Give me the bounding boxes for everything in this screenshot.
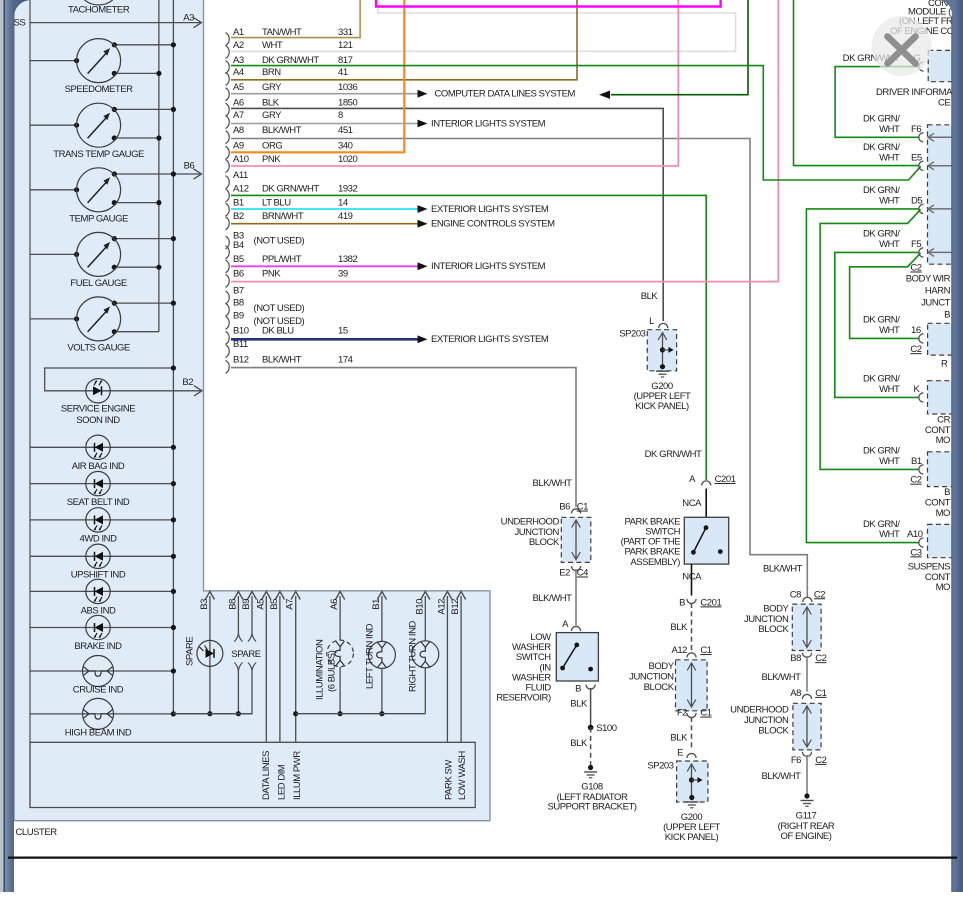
svg-text:331: 331 xyxy=(338,27,353,38)
underhood junction block right xyxy=(793,703,821,750)
svg-text:B9: B9 xyxy=(241,599,252,610)
svg-text:ILLUMINATION: ILLUMINATION xyxy=(315,639,326,700)
svg-text:SPARE: SPARE xyxy=(231,649,260,660)
svg-text:B10: B10 xyxy=(414,599,425,615)
svg-text:RIGHT TURN IND: RIGHT TURN IND xyxy=(408,620,419,692)
connector stub D5 xyxy=(919,204,924,213)
pin arrow B5 xyxy=(279,596,281,600)
wire A9 ORG 340 xyxy=(231,0,404,152)
svg-text:B: B xyxy=(944,309,950,320)
svg-text:DK GRN/: DK GRN/ xyxy=(863,519,900,530)
svg-text:PNK: PNK xyxy=(262,269,281,280)
svg-text:LED DIM: LED DIM xyxy=(277,764,288,800)
svg-text:B6: B6 xyxy=(184,161,195,172)
callout arrow interior lights A7 xyxy=(418,120,428,128)
svg-text:HARN: HARN xyxy=(925,285,951,296)
svg-text:BRN: BRN xyxy=(262,67,281,78)
wire A6 BLK 1850 xyxy=(231,108,663,321)
wire service engine soon loop xyxy=(45,368,201,391)
svg-text:JUNCTION: JUNCTION xyxy=(744,715,789,726)
connector box 16 (dashed) xyxy=(928,323,954,355)
connector stub E5 xyxy=(919,161,924,170)
svg-text:F6: F6 xyxy=(911,124,921,135)
splice S100 xyxy=(588,725,594,731)
callout arrow exterior lights B1 xyxy=(418,205,428,213)
svg-text:L: L xyxy=(649,316,654,327)
highlighted component box (magenta) xyxy=(376,0,721,7)
svg-text:B: B xyxy=(944,487,950,498)
gauge FUEL GAUGE xyxy=(77,232,121,276)
park brake switch box xyxy=(684,517,728,564)
pigtail wire F6 xyxy=(929,136,952,138)
pin arrow B9 xyxy=(251,596,253,600)
svg-text:B8: B8 xyxy=(227,599,238,610)
svg-text:BLOCK: BLOCK xyxy=(644,682,675,693)
wire B12 low wash xyxy=(460,600,462,742)
wire SEAT BELT IND row xyxy=(30,483,173,485)
svg-text:C2: C2 xyxy=(910,263,921,274)
wire BLK dashed to SP203 xyxy=(691,717,693,749)
svg-text:OF ENGINE): OF ENGINE) xyxy=(781,831,832,842)
svg-text:ORG: ORG xyxy=(262,141,282,152)
wire F5 to K link xyxy=(835,252,920,397)
indicator ABS IND xyxy=(86,579,110,603)
svg-text:TEMP GAUGE: TEMP GAUGE xyxy=(69,214,128,225)
svg-text:BLK/WHT: BLK/WHT xyxy=(532,593,572,604)
svg-text:EXTERIOR LIGHTS SYSTEM: EXTERIOR LIGHTS SYSTEM xyxy=(431,204,549,215)
wire A7 GRY 8 xyxy=(231,123,418,125)
svg-text:C2: C2 xyxy=(815,755,826,766)
svg-text:CR: CR xyxy=(937,414,950,425)
svg-text:B2: B2 xyxy=(182,377,193,388)
svg-text:B9: B9 xyxy=(233,311,244,322)
wire TEMP GAUGE bottom lead to bus xyxy=(114,202,159,204)
callout arrow computer data lines xyxy=(418,90,428,98)
svg-text:A10: A10 xyxy=(907,529,923,540)
svg-text:F2: F2 xyxy=(677,708,687,719)
wire B5 PPL/WHT 1382 xyxy=(231,265,418,267)
svg-text:WHT: WHT xyxy=(879,384,900,395)
svg-text:DK GRN/: DK GRN/ xyxy=(863,315,900,326)
connector stub F6 xyxy=(919,133,924,142)
pigtail wire F5 xyxy=(929,251,952,253)
svg-text:SERVICE ENGINE: SERVICE ENGINE xyxy=(61,404,135,415)
svg-text:16: 16 xyxy=(911,325,921,336)
wire BLK dashed to G108 xyxy=(590,728,592,766)
svg-text:174: 174 xyxy=(338,355,353,366)
cluster label strip box xyxy=(30,742,475,807)
bottom separator line xyxy=(8,856,957,858)
svg-text:A11: A11 xyxy=(233,170,248,181)
svg-text:A8: A8 xyxy=(233,125,244,136)
pin arrow B10 xyxy=(424,596,426,600)
svg-text:C2: C2 xyxy=(814,589,825,600)
svg-text:BLK: BLK xyxy=(670,622,688,633)
svg-text:(6 BULBS): (6 BULBS) xyxy=(327,650,338,692)
svg-text:GRY: GRY xyxy=(262,110,282,121)
indicator HIGH BEAM IND xyxy=(83,698,114,729)
indicator AIR BAG IND xyxy=(86,435,110,459)
svg-text:BLOCK: BLOCK xyxy=(758,624,789,635)
svg-text:WHT: WHT xyxy=(879,456,900,467)
svg-text:BLK: BLK xyxy=(570,698,588,709)
svg-text:BLOCK: BLOCK xyxy=(758,725,789,736)
cluster bus wire left xyxy=(158,0,160,332)
wire FUEL GAUGE top lead to bus xyxy=(114,238,173,240)
svg-text:NCA: NCA xyxy=(682,498,702,509)
svg-text:451: 451 xyxy=(338,125,353,136)
connector stub B1 xyxy=(919,465,924,474)
svg-text:TACHOMETER: TACHOMETER xyxy=(68,5,130,16)
wire B8 upper with hook xyxy=(237,600,239,633)
svg-text:BODY: BODY xyxy=(763,603,789,614)
instrument cluster outer box xyxy=(14,0,490,821)
svg-text:DK GRN/: DK GRN/ xyxy=(863,114,900,125)
svg-text:SPEEDOMETER: SPEEDOMETER xyxy=(65,84,133,95)
svg-text:ILLUM PWR: ILLUM PWR xyxy=(292,751,303,800)
svg-text:DK GRN/: DK GRN/ xyxy=(863,229,900,240)
svg-text:TRANS TEMP GAUGE: TRANS TEMP GAUGE xyxy=(53,149,144,160)
svg-text:CONT: CONT xyxy=(925,498,951,509)
svg-text:B5: B5 xyxy=(269,599,280,610)
left turn indicator lamp xyxy=(368,641,395,668)
connector box G (dashed) xyxy=(928,50,954,81)
wire VOLTS GAUGE top lead to bus xyxy=(114,302,173,304)
pin arrow B3 xyxy=(209,596,211,600)
svg-text:WHT: WHT xyxy=(879,239,900,250)
svg-text:B6: B6 xyxy=(559,502,570,513)
svg-text:B: B xyxy=(679,597,685,608)
connector stub K xyxy=(919,393,924,402)
svg-text:F6: F6 xyxy=(791,755,801,766)
gauge TRANS TEMP GAUGE xyxy=(77,103,121,147)
wire 4WD IND row xyxy=(30,519,173,521)
wire B1 LT BLU 14 xyxy=(231,208,418,210)
svg-text:S100: S100 xyxy=(596,723,617,734)
svg-text:WHT: WHT xyxy=(879,529,900,540)
connector stub 16 xyxy=(919,334,924,343)
svg-text:D5: D5 xyxy=(911,196,922,207)
svg-text:UNDERHOOD: UNDERHOOD xyxy=(730,705,789,716)
svg-text:39: 39 xyxy=(338,269,348,280)
svg-text:A3: A3 xyxy=(233,55,244,66)
svg-text:PPL/WHT: PPL/WHT xyxy=(262,254,302,265)
svg-text:14: 14 xyxy=(338,197,348,208)
svg-text:1850: 1850 xyxy=(338,97,358,108)
svg-text:C1: C1 xyxy=(577,502,588,513)
wire AIR BAG IND row xyxy=(30,446,173,448)
svg-text:KICK PANEL): KICK PANEL) xyxy=(635,401,689,412)
wire A12 DK GRN/WHT 1932 xyxy=(231,195,706,480)
svg-text:1382: 1382 xyxy=(338,254,358,265)
svg-text:DK GRN/: DK GRN/ xyxy=(863,374,900,385)
svg-text:BODY: BODY xyxy=(648,661,674,672)
gauge SPEEDOMETER xyxy=(77,39,121,83)
wire A10 PNK 1020 xyxy=(231,0,678,166)
svg-text:TAN/WHT: TAN/WHT xyxy=(262,27,302,38)
svg-text:A3: A3 xyxy=(183,12,194,23)
svg-text:UNDERHOOD: UNDERHOOD xyxy=(501,516,560,527)
svg-text:R: R xyxy=(941,358,948,369)
svg-text:LOW WASH: LOW WASH xyxy=(457,751,468,800)
svg-text:BLK/WHT: BLK/WHT xyxy=(532,478,572,489)
gauge TACHOMETER (cut off at top) xyxy=(77,0,121,5)
cluster inner border bottom xyxy=(30,741,475,743)
ground G117 xyxy=(804,793,809,798)
connector box A10 (dashed) xyxy=(928,524,954,557)
svg-text:1020: 1020 xyxy=(338,154,358,165)
svg-text:A8: A8 xyxy=(790,688,801,699)
connector box K (dashed) xyxy=(928,381,954,414)
svg-text:B1: B1 xyxy=(371,599,382,610)
pin arrow B8 xyxy=(237,596,239,600)
svg-text:INTERIOR LIGHTS SYSTEM: INTERIOR LIGHTS SYSTEM xyxy=(431,118,546,129)
wire CRUISE IND row xyxy=(30,670,173,672)
wire B8 lower with hook xyxy=(234,663,238,672)
svg-text:JUNCTION: JUNCTION xyxy=(514,527,559,538)
svg-text:41: 41 xyxy=(338,67,348,78)
low washer switch contacts xyxy=(574,643,579,648)
wire A5 data lines xyxy=(265,600,267,742)
svg-text:KICK PANEL): KICK PANEL) xyxy=(665,832,719,843)
svg-text:MO: MO xyxy=(936,508,950,519)
svg-text:C2: C2 xyxy=(910,475,921,486)
wire BLK/WHT to low washer xyxy=(575,569,577,626)
ground G200 second xyxy=(689,795,694,800)
connector stub A10 xyxy=(919,538,924,547)
svg-text:1932: 1932 xyxy=(338,183,358,194)
wire A1 TAN/WHT 331 xyxy=(231,0,360,38)
wire B6 PNK 39 xyxy=(231,0,778,282)
svg-text:CE: CE xyxy=(938,97,950,108)
svg-text:F5: F5 xyxy=(911,239,921,250)
wire B1 left turn bulb xyxy=(381,600,383,641)
wire A4 BRN 41 xyxy=(231,0,577,80)
svg-text:WHT: WHT xyxy=(879,152,900,163)
svg-text:BLK: BLK xyxy=(570,738,588,749)
svg-text:PNK: PNK xyxy=(262,154,281,165)
park brake switch contacts xyxy=(704,525,709,530)
wire A7 illum pwr xyxy=(295,600,297,742)
wire SPEEDOMETER bottom lead to bus xyxy=(114,72,159,74)
svg-text:C1: C1 xyxy=(700,708,711,719)
svg-text:E2: E2 xyxy=(559,568,570,579)
svg-text:BRAKE IND: BRAKE IND xyxy=(74,641,122,652)
connector L arc xyxy=(659,323,668,328)
close button xyxy=(872,16,932,76)
svg-text:ASSEMBLY): ASSEMBLY) xyxy=(630,557,680,568)
svg-text:B2: B2 xyxy=(233,211,244,222)
connector stub G xyxy=(919,62,924,71)
wire UPSHIFT IND row xyxy=(30,555,173,557)
svg-text:DATA LINES: DATA LINES xyxy=(261,751,272,800)
svg-text:C201: C201 xyxy=(700,597,721,608)
gauge TEMP GAUGE xyxy=(77,168,121,212)
pigtail wire E5 xyxy=(929,165,952,167)
svg-text:419: 419 xyxy=(338,211,353,222)
svg-text:BLK/WHT: BLK/WHT xyxy=(761,672,801,683)
callout arrow engine controls xyxy=(418,220,428,228)
svg-text:C1: C1 xyxy=(700,645,711,656)
pin arrow A7 xyxy=(295,596,297,600)
svg-text:BODY WIR: BODY WIR xyxy=(906,273,951,284)
svg-text:RESERVOIR): RESERVOIR) xyxy=(496,693,551,704)
svg-text:JUNCTION: JUNCTION xyxy=(629,672,674,683)
wire park brake NCA upper xyxy=(705,489,707,518)
cluster bus wire right xyxy=(172,0,174,714)
wire A5 GRY 1036 xyxy=(231,93,418,95)
svg-text:EXTERIOR LIGHTS SYSTEM: EXTERIOR LIGHTS SYSTEM xyxy=(431,334,549,345)
wire A8 BLK/WHT 451 xyxy=(231,139,807,598)
svg-text:VOLTS GAUGE: VOLTS GAUGE xyxy=(67,343,130,354)
wire park brake NCA lower xyxy=(691,564,693,595)
body junction block right xyxy=(792,604,821,650)
svg-text:JUNCTION: JUNCTION xyxy=(744,614,789,625)
svg-text:BLK/WHT: BLK/WHT xyxy=(761,771,801,782)
wire B2 BRN/WHT 419 xyxy=(231,223,418,225)
svg-text:(NOT USED): (NOT USED) xyxy=(254,303,305,314)
svg-text:A7: A7 xyxy=(233,110,244,121)
svg-text:B: B xyxy=(575,683,581,694)
svg-text:INTERIOR LIGHTS SYSTEM: INTERIOR LIGHTS SYSTEM xyxy=(431,261,546,272)
svg-text:AIR BAG IND: AIR BAG IND xyxy=(72,461,125,472)
wire VOLTS GAUGE bottom lead to bus xyxy=(114,331,159,333)
low washer switch box xyxy=(556,633,598,681)
connector box DIC tall (dashed) xyxy=(928,125,954,264)
svg-text:A7: A7 xyxy=(285,599,296,610)
callout arrow interior lights B5 xyxy=(418,262,428,270)
svg-text:SUSPENS: SUSPENS xyxy=(908,561,950,572)
connector stub F5 xyxy=(919,248,924,257)
wire A2 WHT 121 xyxy=(231,8,736,52)
svg-text:BLK: BLK xyxy=(670,733,688,744)
wire ABS IND row xyxy=(30,590,173,592)
svg-text:BRN/WHT: BRN/WHT xyxy=(262,211,304,222)
right turn indicator lamp xyxy=(412,641,439,668)
svg-text:DK GRN/: DK GRN/ xyxy=(863,185,900,196)
svg-text:SPARE: SPARE xyxy=(185,637,196,666)
svg-text:C201: C201 xyxy=(715,474,736,485)
svg-text:C3: C3 xyxy=(910,547,921,558)
wire pin B6 exit xyxy=(173,173,200,175)
svg-text:A6: A6 xyxy=(329,599,340,610)
svg-text:SP203: SP203 xyxy=(647,761,673,772)
pigtail wire D5 xyxy=(929,208,952,210)
svg-text:817: 817 xyxy=(338,55,353,66)
callout arrow exterior lights B10 xyxy=(418,335,428,343)
svg-text:B6: B6 xyxy=(233,269,244,280)
wire B5 led dim xyxy=(279,600,281,742)
dialog frame left strip xyxy=(4,0,32,892)
svg-text:MO: MO xyxy=(936,435,950,446)
wire BLK to S100 xyxy=(590,688,592,728)
gauge VOLTS GAUGE xyxy=(77,297,121,341)
svg-text:A12: A12 xyxy=(671,645,687,656)
svg-text:C8: C8 xyxy=(790,589,801,600)
svg-text:C1: C1 xyxy=(815,688,826,699)
svg-text:WHT: WHT xyxy=(262,40,283,51)
ground G200 first xyxy=(660,364,665,369)
svg-text:ENGINE CONTROLS SYSTEM: ENGINE CONTROLS SYSTEM xyxy=(431,219,555,230)
body junction block center xyxy=(676,660,708,711)
svg-text:JUNCT: JUNCT xyxy=(921,297,951,308)
pin arrow B1 xyxy=(381,596,383,600)
svg-text:BLK/WHT: BLK/WHT xyxy=(262,355,302,366)
svg-text:B8: B8 xyxy=(233,298,244,309)
svg-text:SS: SS xyxy=(14,18,26,29)
svg-text:B10: B10 xyxy=(233,326,249,337)
svg-text:A1: A1 xyxy=(233,27,244,38)
svg-text:(NOT USED): (NOT USED) xyxy=(254,236,305,247)
svg-text:LT BLU: LT BLU xyxy=(262,197,291,208)
svg-text:DK GRN/: DK GRN/ xyxy=(863,446,900,457)
svg-text:15: 15 xyxy=(338,326,348,337)
pin arrow A6 xyxy=(339,596,341,600)
wire TEMP GAUGE top lead to bus xyxy=(114,173,173,175)
bus wire bottom left segment xyxy=(173,713,252,715)
pin arrow A12 xyxy=(446,596,448,600)
svg-text:A2: A2 xyxy=(233,40,244,51)
wire G to F6 link xyxy=(835,67,919,138)
svg-text:DK GRN/WHT: DK GRN/WHT xyxy=(645,449,702,460)
svg-text:121: 121 xyxy=(338,40,353,51)
dialog frame right strip xyxy=(938,0,963,892)
wire D5 to B1 link xyxy=(820,209,921,469)
wire A12 park sw xyxy=(446,600,448,742)
svg-text:A5: A5 xyxy=(233,82,244,93)
svg-text:WHT: WHT xyxy=(879,196,900,207)
wire BLK/WHT to G117 xyxy=(806,755,808,794)
svg-text:PARK SW: PARK SW xyxy=(444,760,455,800)
wire D5 to A10 suspension link xyxy=(806,209,919,543)
svg-text:B8: B8 xyxy=(790,653,801,664)
computer data lines return wire (dk green) xyxy=(611,0,748,95)
indicator BRAKE IND xyxy=(86,615,110,639)
svg-text:DK BLU: DK BLU xyxy=(262,326,294,337)
wire HIGH BEAM IND row xyxy=(30,713,252,715)
svg-text:GRY: GRY xyxy=(262,82,282,93)
wire FUEL GAUGE left lead xyxy=(30,253,77,255)
svg-text:LEFT TURN IND: LEFT TURN IND xyxy=(364,623,375,689)
svg-text:C2: C2 xyxy=(910,344,921,355)
svg-text:8: 8 xyxy=(338,110,343,121)
wire pin A3 exit xyxy=(30,22,200,24)
wire B10 DK BLU 15 xyxy=(231,338,418,341)
wire SPEEDOMETER top lead to bus xyxy=(114,44,173,46)
wire TRANS TEMP GAUGE top lead to bus xyxy=(114,108,173,110)
wire BLK/WHT between blocks xyxy=(806,656,808,692)
svg-text:A9: A9 xyxy=(233,141,244,152)
pin arrow A5 xyxy=(265,596,267,600)
svg-text:SUPPORT BRACKET): SUPPORT BRACKET) xyxy=(547,801,636,812)
svg-text:BLK: BLK xyxy=(641,291,659,302)
svg-text:BLK: BLK xyxy=(262,97,280,108)
bus wire bottom right segment xyxy=(296,713,426,715)
svg-text:SEAT BELT IND: SEAT BELT IND xyxy=(67,497,130,508)
wire TEMP GAUGE left lead xyxy=(30,189,77,191)
svg-text:BLK/WHT: BLK/WHT xyxy=(763,563,803,574)
svg-text:B5: B5 xyxy=(233,254,244,265)
svg-text:C4: C4 xyxy=(577,568,588,579)
svg-text:A4: A4 xyxy=(233,67,244,78)
svg-text:CRUISE IND: CRUISE IND xyxy=(73,684,124,695)
indicator CRUISE IND xyxy=(83,656,114,687)
svg-text:4WD IND: 4WD IND xyxy=(80,534,118,545)
svg-text:B1: B1 xyxy=(911,456,922,467)
wire A3 DK GRN/WHT 817 xyxy=(231,66,921,180)
svg-text:E: E xyxy=(677,747,683,758)
ground G108 xyxy=(588,765,593,770)
